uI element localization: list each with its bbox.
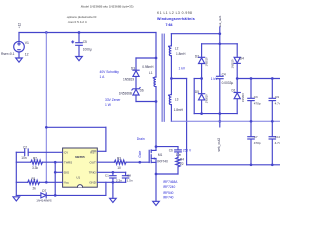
wire snubber top bbox=[136, 57, 156, 59]
diode D1 1N5819 bbox=[232, 89, 245, 102]
resistor R2 3.3k bbox=[16, 157, 62, 170]
wire return row bbox=[187, 164, 280, 166]
ground under V1 bbox=[16, 58, 23, 62]
svg-text:K1 L1 L2 L3 0.998: K1 L1 L2 L3 0.998 bbox=[157, 11, 192, 15]
svg-text:D7: D7 bbox=[42, 189, 46, 193]
wire B row bbox=[194, 113, 237, 115]
svg-text:1.5n: 1.5n bbox=[127, 178, 133, 182]
svg-text:Windungsverhältnis: Windungsverhältnis bbox=[157, 17, 195, 21]
wire snubber RC bottom to source bbox=[156, 173, 178, 175]
svg-text:0.98mH: 0.98mH bbox=[142, 65, 154, 69]
wire centre tap column down bbox=[186, 79, 188, 165]
svg-text:IRF540: IRF540 bbox=[163, 191, 174, 195]
svg-text:1N5819: 1N5819 bbox=[232, 59, 235, 68]
transformer core line 2 bbox=[163, 34, 165, 121]
capacitor C6 snubber 10n bbox=[169, 147, 182, 157]
svg-text:L3: L3 bbox=[175, 97, 179, 101]
svg-text:1N5819: 1N5819 bbox=[123, 78, 134, 82]
svg-text:R3: R3 bbox=[117, 157, 121, 161]
svg-text:3.3k: 3.3k bbox=[32, 166, 38, 170]
svg-text:CV: CV bbox=[64, 151, 68, 155]
inductor L2 secondary winding 1.8mH bbox=[168, 34, 186, 56]
ground under C5 bbox=[76, 57, 83, 61]
junction sek line top row bbox=[218, 32, 221, 35]
diode D6 zener clamp bbox=[119, 88, 144, 96]
svg-text:1 W: 1 W bbox=[105, 103, 112, 107]
svg-text:C4: C4 bbox=[222, 73, 226, 77]
wire Vcc feed column bbox=[45, 33, 47, 183]
svg-text:TRIG: TRIG bbox=[89, 171, 97, 175]
svg-text:0.0033µ: 0.0033µ bbox=[222, 81, 234, 85]
svg-text:NE555: NE555 bbox=[75, 155, 85, 159]
svg-text:Vcc: Vcc bbox=[64, 181, 70, 185]
wire left ground column bbox=[15, 152, 17, 195]
wire D2 column lower bbox=[201, 64, 203, 79]
svg-text:IRF7468A: IRF7468A bbox=[163, 180, 178, 184]
svg-text:Rser=0.1: Rser=0.1 bbox=[1, 52, 15, 56]
svg-text:IRF7240: IRF7240 bbox=[163, 185, 175, 189]
wire snubber column middle bbox=[135, 77, 137, 89]
wire sek column upper bbox=[219, 27, 221, 76]
junction D4 D1 mid bbox=[236, 77, 239, 80]
capacitor C8 1.5n bbox=[122, 172, 133, 182]
wire drain to RC snubber bbox=[156, 146, 178, 148]
svg-text:L2: L2 bbox=[175, 46, 179, 50]
wire source to ground bbox=[155, 162, 157, 201]
diode D3 schottky clamp bbox=[123, 66, 139, 81]
junction source node bbox=[155, 173, 158, 176]
svg-text:10: 10 bbox=[117, 166, 121, 170]
diode D2 1N5819 bbox=[195, 54, 208, 66]
svg-text:D3: D3 bbox=[131, 66, 135, 70]
capacitor C3 470p bbox=[248, 79, 261, 122]
junction THRS / DIS column bbox=[54, 161, 57, 164]
wire mid jog left bbox=[194, 78, 201, 80]
svg-text:C1: C1 bbox=[105, 173, 109, 177]
wire rail corner down to primary top bbox=[155, 33, 157, 59]
svg-text:C8: C8 bbox=[127, 173, 131, 177]
svg-text:1N5819: 1N5819 bbox=[242, 93, 245, 102]
voltage source V1 bbox=[1, 33, 29, 59]
wire snubber column upper bbox=[135, 58, 137, 70]
junction gate net flag bbox=[138, 161, 141, 164]
svg-text:4.7n: 4.7n bbox=[275, 101, 280, 105]
svg-text:THRS: THRS bbox=[64, 161, 72, 165]
op-amp U1 NE555 timer body bbox=[63, 148, 98, 187]
svg-text:M1: M1 bbox=[158, 153, 163, 157]
wire DIS stub bbox=[55, 171, 62, 173]
junction sek column / diode top row bbox=[218, 42, 221, 45]
svg-text:22: 22 bbox=[180, 162, 184, 166]
svg-text:1N5819: 1N5819 bbox=[205, 94, 208, 103]
svg-text:D4: D4 bbox=[240, 56, 244, 60]
junction GND row / ground stub bbox=[112, 181, 115, 184]
wire top +12V rail bbox=[19, 32, 156, 34]
svg-text:7:64: 7:64 bbox=[166, 23, 173, 27]
junction HV bus / C7 bbox=[250, 120, 253, 123]
capacitor C10 4.7n bbox=[269, 121, 281, 165]
svg-text:DIS: DIS bbox=[64, 171, 69, 175]
wire D1 column lower bbox=[236, 99, 238, 114]
svg-text:V1: V1 bbox=[25, 41, 29, 45]
wire D1 column upper bbox=[236, 79, 238, 93]
svg-text:C3: C3 bbox=[254, 95, 258, 99]
wire HV output row bbox=[237, 78, 279, 80]
junction HV row / C9 bbox=[271, 77, 274, 80]
svg-text:C10: C10 bbox=[275, 135, 280, 139]
svg-text:12: 12 bbox=[25, 53, 29, 57]
junction sek column / HV bus bbox=[218, 120, 221, 123]
wire R pin stub bbox=[97, 150, 106, 152]
svg-text:U1: U1 bbox=[76, 176, 80, 180]
junction rail / Vcc feed bbox=[45, 31, 48, 34]
wire THRS-DIS column bbox=[54, 162, 56, 195]
junction drain / snubber RC bbox=[155, 145, 158, 148]
wire snubber bottom bbox=[136, 101, 156, 103]
diode D4 1N5819 bbox=[232, 56, 244, 68]
svg-text:1N4148WS: 1N4148WS bbox=[36, 199, 51, 203]
inductor L1 primary winding 0.98mH bbox=[142, 58, 156, 102]
svg-text:Drain: Drain bbox=[137, 137, 145, 141]
wire centre tap jog right bbox=[171, 78, 186, 80]
junction sek column / B row bbox=[218, 112, 221, 115]
wire reset column down to R pin bbox=[105, 127, 107, 151]
svg-text:2k: 2k bbox=[33, 186, 37, 190]
svg-text:C7: C7 bbox=[254, 135, 258, 139]
junction L1 bottom / drain node bbox=[155, 100, 158, 103]
svg-text:Gate: Gate bbox=[138, 150, 142, 157]
svg-text:2.2n: 2.2n bbox=[116, 178, 122, 182]
wire snubber column lower bbox=[135, 95, 137, 101]
junction return row / C10 bbox=[271, 163, 274, 166]
inductor L3 secondary winding 1.8mH bbox=[168, 94, 184, 112]
junction Vcc feed / reset row bbox=[45, 126, 48, 129]
wire GND row bbox=[97, 181, 125, 183]
wire L2 to centre tap bbox=[170, 56, 172, 95]
junction D5 / B row bbox=[200, 112, 203, 115]
wire bottom row right bbox=[46, 194, 106, 196]
svg-text:D5: D5 bbox=[195, 90, 199, 94]
svg-text:D6: D6 bbox=[140, 89, 144, 93]
wire reset row bbox=[46, 126, 106, 128]
wire L3 bottom to HV bus bbox=[170, 105, 172, 122]
svg-text:1 kV: 1 kV bbox=[211, 77, 218, 81]
junction D2 D5 mid bbox=[200, 77, 203, 80]
junction return row / C7 bbox=[250, 163, 253, 166]
svg-text:.Model 1N5366B ako 1N5366B (tp: .Model 1N5366B ako 1N5366B (tpb=33) bbox=[80, 5, 133, 9]
svg-text:D1: D1 bbox=[232, 89, 236, 93]
ground under M1 source bbox=[153, 201, 160, 205]
svg-text:4.7n: 4.7n bbox=[275, 141, 280, 145]
capacitor C2 10n bbox=[16, 145, 62, 160]
wire D5 column upper bbox=[201, 79, 203, 94]
svg-text:1.8mH: 1.8mH bbox=[174, 108, 184, 112]
capacitor C7 470p bbox=[248, 121, 261, 165]
svg-text:250 V: 250 V bbox=[183, 149, 192, 153]
wire HV bus bbox=[171, 120, 279, 122]
ground below 555 bbox=[110, 198, 117, 202]
svg-text:10n: 10n bbox=[21, 156, 27, 160]
svg-text:L1: L1 bbox=[149, 71, 153, 75]
wire ground stub below 555 bbox=[112, 182, 114, 198]
wire D4 column lower bbox=[236, 64, 238, 79]
svg-text:1N5819: 1N5819 bbox=[205, 57, 208, 66]
svg-text:D2: D2 bbox=[195, 54, 199, 58]
resistor R4 snubber 22 bbox=[176, 152, 185, 174]
svg-text:470p: 470p bbox=[254, 101, 261, 105]
svg-text:1 kV: 1 kV bbox=[179, 66, 186, 70]
junction TRIG row / C1 bbox=[112, 171, 115, 174]
junction rail / C5 bbox=[78, 31, 81, 34]
junction DIS stub bbox=[54, 171, 57, 174]
wire D4 column upper bbox=[236, 44, 238, 57]
junction HV row / C3 bbox=[250, 77, 253, 80]
junction primary top node bbox=[155, 57, 158, 60]
svg-text:+12: +12 bbox=[17, 23, 21, 29]
svg-text:RST: RST bbox=[90, 151, 96, 155]
svg-text:1.8mH: 1.8mH bbox=[176, 52, 186, 56]
junction HV bus / C10 bbox=[271, 120, 274, 123]
svg-text:.options plotwinsize=0: .options plotwinsize=0 bbox=[66, 15, 97, 19]
svg-text:sek_out2: sek_out2 bbox=[217, 138, 221, 152]
resistor R1 2k bbox=[16, 177, 62, 191]
svg-text:1 A: 1 A bbox=[100, 75, 106, 79]
svg-text:R1: R1 bbox=[32, 177, 36, 181]
svg-text:1000µ: 1000µ bbox=[83, 48, 92, 52]
svg-text:R4: R4 bbox=[180, 157, 184, 161]
svg-text:40V Schottky: 40V Schottky bbox=[100, 70, 120, 74]
ground left bottom bbox=[13, 197, 20, 201]
junction Vcc feed / Vcc row bbox=[45, 181, 48, 184]
capacitor C9 4.7n bbox=[269, 79, 281, 122]
svg-text:IRF740: IRF740 bbox=[157, 160, 168, 164]
svg-text:C6: C6 bbox=[169, 149, 173, 153]
capacitor C4 0.0033u 1kV bbox=[217, 73, 234, 86]
svg-text:OUT: OUT bbox=[90, 161, 97, 165]
wire mid jog column bbox=[193, 79, 195, 114]
svg-text:C2: C2 bbox=[23, 145, 27, 149]
resistor R3 10 gate resistor bbox=[97, 157, 149, 170]
svg-text:1N5366B: 1N5366B bbox=[119, 92, 132, 96]
wire sek_out2 stub bbox=[219, 121, 221, 127]
junction bottom row / THRS-DIS column bbox=[54, 194, 57, 197]
svg-text:C9: C9 bbox=[275, 95, 279, 99]
wire bottom row left bbox=[16, 194, 41, 196]
wire TRIG row bbox=[97, 171, 125, 173]
junction centre tap bbox=[170, 77, 173, 80]
svg-text:.tran 0 5 4.2 4: .tran 0 5 4.2 4 bbox=[68, 20, 87, 24]
svg-text:33V Zener: 33V Zener bbox=[105, 98, 121, 102]
transistor M1 MOSFET IRF740 bbox=[149, 150, 168, 164]
capacitor C5 bbox=[72, 33, 92, 57]
wire sek column lower bbox=[219, 79, 221, 121]
wire D2 column upper bbox=[201, 44, 203, 57]
svg-text:R2: R2 bbox=[33, 157, 37, 161]
transformer core line 1 bbox=[161, 34, 163, 121]
wire D5 column lower bbox=[201, 100, 203, 113]
svg-text:C5: C5 bbox=[83, 40, 87, 44]
svg-text:sek_out1: sek_out1 bbox=[218, 15, 222, 27]
wire secondary top row bbox=[171, 33, 219, 35]
svg-text:IRF740: IRF740 bbox=[163, 196, 174, 200]
wire drain column bbox=[155, 102, 157, 151]
diode D5 1N5819 bbox=[195, 90, 208, 103]
wire diode top row bbox=[202, 43, 238, 45]
svg-text:GND: GND bbox=[89, 181, 97, 185]
wire bottom row corner up to GND pin row bbox=[105, 182, 107, 195]
diode D7 1N4148WS bbox=[36, 189, 51, 203]
svg-text:470p: 470p bbox=[254, 141, 261, 145]
capacitor C1 2.2n bbox=[105, 172, 122, 182]
